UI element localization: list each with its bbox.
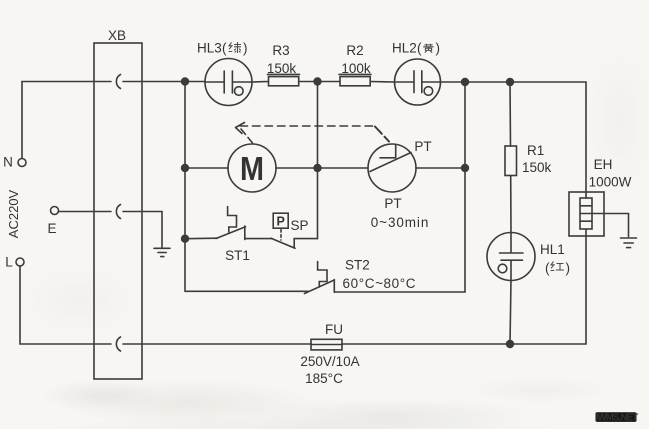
- svg-text:EH: EH: [594, 157, 613, 172]
- svg-text:SP: SP: [291, 218, 309, 233]
- label R1 value: [522, 143, 552, 175]
- svg-text:60°C~80°C: 60°C~80°C: [343, 276, 417, 291]
- label HL2 (yellow): [392, 41, 440, 56]
- wire: left rail to motor M: [185, 167, 228, 169]
- wire: HL1 to bottom bus: [510, 281, 511, 345]
- connector XB contact pin 2 (middle): [116, 205, 120, 219]
- ground (earth) at EH: [621, 238, 637, 248]
- label ST2: [345, 258, 370, 273]
- label HL1 (red): [540, 242, 570, 276]
- label PT range 0~30min: [371, 215, 429, 230]
- connector XB body: [94, 43, 142, 379]
- svg-text:250V/10A: 250V/10A: [300, 354, 359, 369]
- wire: M to PT (junction at 317.5): [276, 167, 368, 169]
- label AC220V (vertical): [6, 189, 21, 238]
- node junction R3/R2: [314, 78, 321, 85]
- wire: PT to right rail: [416, 167, 465, 169]
- switch ST1 (thermal): [185, 207, 246, 240]
- svg-text:): ): [566, 261, 571, 276]
- label HL3 (green): [197, 41, 248, 56]
- node junction ST1-row left: [182, 235, 189, 242]
- heater EH outer box: [569, 192, 604, 236]
- svg-text:XB: XB: [108, 28, 126, 43]
- lamp HL2 (neon, yellow): [395, 59, 441, 105]
- svg-text:HL2: HL2: [392, 41, 417, 56]
- svg-text:150k: 150k: [522, 160, 552, 175]
- wire: FU to EH bottom corner (junction at 510): [342, 236, 586, 344]
- label R2 value: [341, 43, 371, 76]
- timer switch PT: [368, 144, 416, 192]
- svg-text:E: E: [47, 221, 56, 236]
- resistor R2: [339, 74, 371, 85]
- svg-text:R1: R1: [527, 143, 544, 158]
- node junction M-row left: [182, 165, 189, 172]
- wire: SP to mid rail: [294, 238, 317, 240]
- wire: L down and along bottom bus to FU: [20, 266, 311, 344]
- label ST1: [225, 248, 250, 263]
- terminal E: [51, 207, 59, 215]
- label EH rating: [589, 157, 632, 190]
- wire: left rail bottom to ST2: [185, 290, 308, 292]
- terminal L: [16, 258, 24, 266]
- wire: EH case tap to earth: [592, 214, 629, 237]
- node junction x510 top: [507, 79, 514, 86]
- wire: ST1 to SP: [245, 238, 272, 240]
- watermark: [596, 412, 639, 423]
- svg-text:M: M: [240, 150, 264, 187]
- label PT lower: [384, 196, 401, 211]
- svg-text:N: N: [3, 155, 13, 170]
- svg-text:AC220V: AC220V: [6, 189, 21, 238]
- label N: [3, 155, 13, 170]
- svg-text:185°C: 185°C: [305, 371, 343, 386]
- svg-text:PT: PT: [384, 196, 401, 211]
- wire: mid rail x317.5 down: [317, 82, 319, 239]
- svg-text:100k: 100k: [341, 61, 371, 76]
- label SP: [291, 218, 309, 233]
- motor M letter: [240, 150, 264, 187]
- svg-text:): ): [436, 41, 441, 56]
- mechanical linkage dashed M to PT: [236, 123, 390, 144]
- svg-text:FU: FU: [325, 322, 343, 337]
- svg-text:ST2: ST2: [345, 258, 370, 273]
- svg-text:(: (: [545, 261, 550, 276]
- svg-text:P: P: [277, 215, 285, 229]
- label ST2 range 60-80C: [343, 276, 417, 291]
- node junction x465 top: [462, 79, 469, 86]
- label FU rating: [300, 322, 359, 386]
- svg-text:ST1: ST1: [225, 248, 250, 263]
- svg-text:R2: R2: [346, 43, 363, 58]
- svg-text:PT: PT: [414, 139, 431, 154]
- switch ST2 (thermostat 60-80C): [305, 262, 335, 294]
- fuse FU: [311, 339, 342, 350]
- label R3 value: [267, 43, 297, 76]
- switch SP (steam pressure): [271, 213, 295, 248]
- wire: left rail x185 down: [184, 82, 186, 292]
- svg-text:HL1: HL1: [540, 242, 565, 257]
- connector XB contact pin 3 (bottom): [116, 337, 120, 351]
- connector XB contact pin 1 (top): [116, 75, 120, 89]
- ground (earth) near XB: [154, 248, 170, 256]
- svg-text:): ): [243, 41, 248, 56]
- wire: XB pin1 to HL3 (junction at 185): [123, 81, 205, 83]
- heater EH element: [580, 192, 592, 236]
- switch SP letter P: [277, 215, 285, 229]
- node junction top-left: [182, 78, 189, 85]
- node junction bottom x510: [507, 341, 514, 348]
- svg-text:150k: 150k: [267, 61, 297, 76]
- wire: terminal N up to top bus and to XB contact: [22, 82, 111, 159]
- svg-text:(: (: [417, 41, 422, 56]
- svg-text:0~30min: 0~30min: [371, 215, 429, 230]
- node junction PT-row right: [462, 165, 469, 172]
- svg-text:L: L: [5, 255, 13, 270]
- wire: right rail x465 down: [464, 82, 466, 292]
- wire: x510 down to R1: [509, 82, 512, 146]
- wire: HL2 to EH drop (junctions at 465 and 510): [440, 82, 586, 192]
- lamp HL1 (neon, red): [487, 233, 535, 281]
- label E: [47, 221, 56, 236]
- svg-text:IWMS.NET: IWMS.NET: [596, 413, 639, 424]
- terminal N: [18, 159, 26, 167]
- label PT upper: [414, 139, 431, 154]
- label XB: [108, 28, 126, 43]
- svg-text:(: (: [222, 41, 227, 56]
- wire: R1 to HL1: [510, 176, 512, 233]
- svg-text:R3: R3: [272, 43, 289, 58]
- wire: E to XB contact to earth: [59, 212, 163, 248]
- motor M: [228, 144, 276, 192]
- svg-text:1000W: 1000W: [589, 175, 632, 190]
- label L: [5, 255, 13, 270]
- resistor R1: [505, 146, 517, 176]
- wire: R2 to HL2: [370, 81, 395, 84]
- wire: R3 to R2 (junction at 317): [299, 81, 340, 83]
- wire: HL3 to R3: [252, 81, 269, 84]
- resistor R3: [268, 74, 300, 85]
- lamp HL3 (neon, green): [205, 59, 252, 106]
- wire: ST2 to right rail corner: [334, 291, 465, 293]
- svg-text:HL3: HL3: [197, 41, 222, 56]
- node junction M-row mid: [314, 165, 321, 172]
